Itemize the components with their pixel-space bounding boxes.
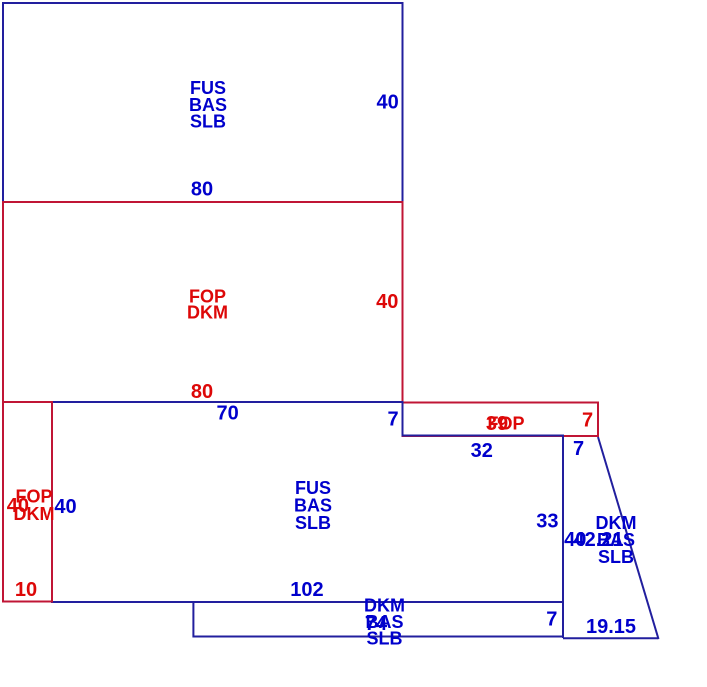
svg-text:80: 80 — [191, 381, 213, 403]
parcel rect3 big middle blue polygon FUS BAS SLB — [52, 402, 563, 602]
svg-text:40: 40 — [54, 496, 76, 518]
svg-text:7: 7 — [573, 438, 584, 460]
svg-text:102: 102 — [290, 579, 323, 601]
svg-text:74: 74 — [365, 613, 388, 635]
svg-text:32: 32 — [471, 440, 493, 462]
wire quad left vertical x=563 — [562, 436, 564, 639]
svg-text:7: 7 — [387, 409, 398, 431]
svg-text:33: 33 — [536, 511, 558, 533]
svg-text:40: 40 — [376, 291, 398, 313]
svg-text:19.15: 19.15 — [586, 616, 636, 638]
svg-text:7: 7 — [546, 609, 557, 631]
parcel rect1 FUS BAS SLB (top blue rectangle) — [3, 3, 403, 202]
svg-text:39: 39 — [486, 413, 508, 435]
svg-text:10: 10 — [15, 579, 37, 601]
parcel rect5 small left red rectangle FOP DKM — [3, 402, 52, 602]
wire quad bottom — [563, 637, 659, 639]
svg-text:SLB: SLB — [190, 112, 226, 132]
parcel strip bottom DKM BAS SLB — [193, 602, 563, 637]
svg-text:SLB: SLB — [598, 547, 634, 567]
parcel rect4 red FOP 39 strip top-right — [403, 403, 599, 437]
svg-text:70: 70 — [216, 403, 238, 425]
svg-text:40: 40 — [7, 495, 29, 517]
parcel rect2 FOP DKM (middle red rectangle) — [3, 202, 403, 402]
svg-text:SLB: SLB — [295, 513, 331, 533]
wire quad diagonal — [598, 437, 659, 639]
svg-text:DKM: DKM — [187, 303, 228, 323]
svg-text:40: 40 — [376, 91, 398, 113]
svg-text:80: 80 — [191, 179, 213, 201]
svg-text:7: 7 — [582, 410, 593, 432]
